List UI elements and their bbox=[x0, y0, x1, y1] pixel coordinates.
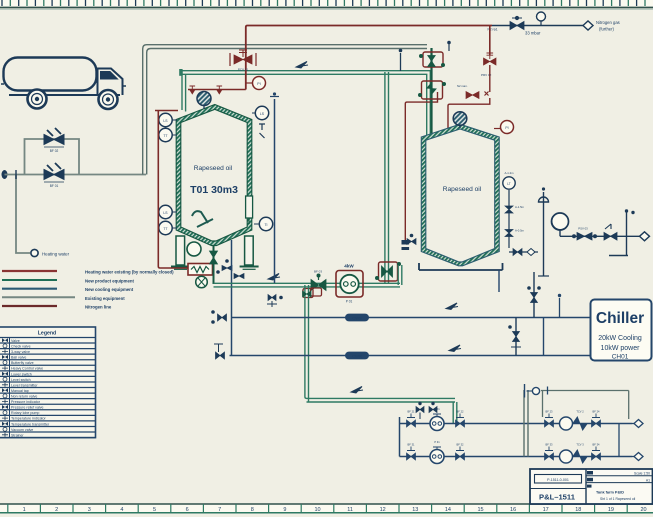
circulation pump small bbox=[196, 276, 208, 288]
svg-text:15: 15 bbox=[477, 507, 483, 513]
svg-text:PCV 01: PCV 01 bbox=[238, 68, 249, 72]
valve PRV02 bbox=[484, 53, 497, 65]
svg-text:Check valve: Check valve bbox=[11, 344, 31, 348]
svg-text:Heavy Control valve: Heavy Control valve bbox=[11, 367, 43, 371]
spray ball instrument bbox=[203, 106, 205, 110]
drain cluster below tank bbox=[217, 260, 244, 279]
valve drop from tank2 cooling bbox=[528, 272, 541, 318]
instrument LS lower left bbox=[172, 211, 177, 213]
svg-text:New cooling equipment: New cooling equipment bbox=[85, 287, 134, 292]
fitting at heating drop bbox=[402, 240, 410, 250]
svg-text:13: 13 bbox=[412, 507, 418, 513]
wire: heating water line to exchanger bbox=[405, 92, 437, 240]
svg-text:Nitrogen line: Nitrogen line bbox=[85, 305, 112, 310]
instrument TI right bbox=[254, 223, 259, 225]
svg-text:Temperature indicator: Temperature indicator bbox=[11, 417, 47, 421]
tanker truck bbox=[1, 58, 126, 96]
svg-text:BF 33: BF 33 bbox=[546, 443, 553, 447]
svg-text:18: 18 bbox=[575, 507, 581, 513]
wire: chilled water return bbox=[230, 355, 591, 357]
side nozzles right tank bbox=[505, 190, 525, 248]
node at left edge bbox=[2, 170, 8, 179]
svg-text:Pressure relief valve: Pressure relief valve bbox=[11, 406, 44, 410]
svg-text:2: 2 bbox=[55, 507, 58, 513]
heat exchanger train row 1 bbox=[400, 407, 633, 431]
wire: tank outlet bbox=[213, 246, 215, 285]
svg-text:TCV 3: TCV 3 bbox=[576, 443, 584, 447]
svg-text:10: 10 bbox=[314, 507, 320, 513]
svg-text:7: 7 bbox=[218, 507, 221, 513]
valve BF02 (bypass top) bbox=[44, 128, 64, 147]
svg-text:A-1.2m: A-1.2m bbox=[504, 171, 514, 175]
flow arrow supply bbox=[446, 303, 458, 310]
legend line nitrogen bbox=[2, 305, 57, 307]
svg-text:CWR: CWR bbox=[352, 353, 362, 358]
wire: header tie bbox=[543, 318, 545, 356]
gauge 33 mbar bbox=[540, 21, 542, 26]
svg-text:LS: LS bbox=[163, 119, 168, 123]
legend line heating water bbox=[2, 270, 57, 272]
svg-text:Legend: Legend bbox=[38, 331, 56, 337]
legend table bbox=[0, 327, 96, 438]
wire: vent line right bbox=[560, 235, 640, 237]
svg-text:BF 02: BF 02 bbox=[50, 149, 59, 153]
heat exchanger train row 2 bbox=[400, 440, 633, 464]
svg-text:BF 03: BF 03 bbox=[314, 270, 322, 274]
valve tank outlet bbox=[210, 251, 218, 264]
svg-text:11: 11 bbox=[347, 507, 353, 513]
wire: train left header bbox=[399, 417, 401, 457]
svg-text:20: 20 bbox=[640, 507, 646, 513]
svg-text:BF 21: BF 21 bbox=[408, 410, 415, 414]
svg-text:CH01: CH01 bbox=[612, 354, 629, 361]
svg-text:Sht 1 of 1 Rapeseed oil: Sht 1 of 1 Rapeseed oil bbox=[600, 497, 635, 501]
tank T01 wall bbox=[176, 105, 252, 246]
tank legs bbox=[176, 236, 253, 265]
vent stub mid bbox=[400, 53, 402, 71]
legend line new cooling bbox=[2, 288, 57, 290]
instrument TT upper left bbox=[172, 134, 177, 136]
svg-text:PI: PI bbox=[257, 82, 260, 86]
svg-text:Rapeseed oil: Rapeseed oil bbox=[443, 186, 482, 193]
svg-text:14: 14 bbox=[445, 507, 451, 513]
balancing valve between headers bbox=[509, 318, 521, 356]
strainer valve bbox=[604, 224, 617, 240]
svg-text:BF 32: BF 32 bbox=[457, 443, 464, 447]
svg-text:CWS: CWS bbox=[352, 315, 362, 320]
stub to chiller supply bbox=[559, 298, 561, 318]
svg-text:4kW: 4kW bbox=[344, 264, 354, 269]
wire: nitrogen drop right tank bbox=[489, 26, 491, 56]
svg-text:TI: TI bbox=[264, 223, 267, 227]
valve PCV (nitrogen, left tank) bbox=[230, 50, 256, 66]
wire: bypass loop bbox=[25, 139, 80, 175]
flow arrow transfer bbox=[351, 387, 363, 394]
wire: glycol double drop bbox=[524, 390, 528, 457]
svg-text:Strainer: Strainer bbox=[11, 433, 24, 437]
svg-text:Rotary lobe pump: Rotary lobe pump bbox=[11, 411, 39, 415]
valves above left header bbox=[416, 402, 437, 419]
tank 2 base bbox=[419, 263, 503, 270]
svg-text:N2 man.: N2 man. bbox=[457, 84, 468, 88]
nitrogen gas source connector bbox=[583, 21, 593, 30]
valve on level line bbox=[212, 311, 227, 324]
truck wheel rear bbox=[28, 90, 47, 109]
svg-text:Level switch: Level switch bbox=[11, 378, 31, 382]
svg-text:A-0.5m: A-0.5m bbox=[515, 229, 525, 233]
vent standpipe bbox=[609, 213, 628, 256]
wire: chilled water supply bbox=[232, 317, 591, 319]
wire: nitrogen header bbox=[246, 26, 492, 90]
wire: product line drop to pump bbox=[385, 72, 389, 284]
svg-text:Temperature transmitter: Temperature transmitter bbox=[11, 422, 50, 426]
truck wheel front bbox=[99, 90, 118, 109]
vent fitting right shoulder bbox=[259, 124, 265, 138]
chiller CH01 bbox=[591, 300, 652, 361]
wire: truck unloading main line bbox=[5, 174, 147, 176]
glycol pump small bbox=[532, 387, 539, 394]
instrument LS top right bbox=[252, 112, 256, 114]
flow arrow bbox=[268, 274, 280, 281]
svg-text:9: 9 bbox=[283, 507, 286, 513]
svg-text:LT: LT bbox=[507, 182, 511, 186]
wire: glycol top run bbox=[541, 390, 629, 392]
svg-text:P-1511-0-001: P-1511-0-001 bbox=[547, 478, 569, 482]
svg-text:T01 30m3: T01 30m3 bbox=[190, 184, 238, 196]
heating water connection point bbox=[31, 249, 38, 256]
svg-text:Valve: Valve bbox=[11, 339, 20, 343]
svg-text:BF 22: BF 22 bbox=[457, 410, 464, 414]
svg-text:BF 34: BF 34 bbox=[593, 443, 600, 447]
svg-text:P&L–1511: P&L–1511 bbox=[539, 493, 576, 502]
valves nitrogen manifold right tank bbox=[457, 84, 489, 99]
wire: cross connection bbox=[231, 318, 233, 356]
gauge PI01 bbox=[246, 82, 252, 84]
svg-text:(further): (further) bbox=[599, 27, 614, 32]
wire: product transfer line bbox=[305, 285, 455, 402]
svg-text:Existing equipment: Existing equipment bbox=[85, 296, 125, 301]
svg-text:Scale 1:50: Scale 1:50 bbox=[634, 472, 650, 476]
wire: train mid tie bbox=[618, 424, 620, 457]
tank 2 wall bbox=[421, 124, 499, 266]
svg-text:LS: LS bbox=[260, 112, 265, 116]
svg-text:Vacuum valve: Vacuum valve bbox=[11, 428, 33, 432]
svg-text:BF 24: BF 24 bbox=[593, 410, 600, 414]
wire: heating water supply left tank bbox=[155, 110, 178, 112]
heater box bbox=[188, 264, 213, 276]
svg-text:PI: PI bbox=[505, 126, 508, 130]
valve on return end bbox=[214, 344, 225, 359]
feed pipe into tank top bbox=[182, 71, 186, 112]
gauge PI right tank bbox=[494, 128, 501, 130]
svg-text:8: 8 bbox=[251, 507, 254, 513]
svg-text:4: 4 bbox=[120, 507, 123, 513]
legend line new product bbox=[2, 279, 57, 281]
vent connector diamond bbox=[640, 232, 650, 241]
flow arrow return bbox=[449, 345, 461, 352]
title block bbox=[530, 469, 653, 504]
svg-text:Ball valve: Ball valve bbox=[11, 356, 26, 360]
valves N2 inlet to left tank bbox=[188, 89, 246, 91]
legend line existing bbox=[2, 296, 75, 298]
svg-text:PSV 03: PSV 03 bbox=[578, 227, 588, 231]
svg-text:TCV 2: TCV 2 bbox=[576, 410, 584, 414]
bottom outlet valve tank2 bbox=[509, 249, 538, 256]
wire: level line bbox=[231, 240, 233, 318]
small fittings above supply bbox=[267, 295, 282, 308]
instrument LS upper left bbox=[172, 119, 177, 121]
svg-text:BF 31: BF 31 bbox=[408, 443, 415, 447]
svg-text:Heating water: Heating water bbox=[42, 252, 70, 257]
svg-text:16: 16 bbox=[510, 507, 516, 513]
level dome instrument bbox=[538, 192, 549, 276]
svg-text:Manual tap: Manual tap bbox=[11, 389, 29, 393]
svg-text:New product equipment: New product equipment bbox=[85, 279, 135, 284]
instrument LT right tank bbox=[503, 177, 515, 189]
svg-text:Heating water existing (by nor: Heating water existing (by normally clos… bbox=[85, 270, 174, 275]
svg-text:Rapeseed oil: Rapeseed oil bbox=[194, 165, 233, 172]
svg-text:Lower switch: Lower switch bbox=[11, 372, 32, 376]
valve nitrogen shutoff bbox=[510, 16, 524, 29]
svg-text:19: 19 bbox=[608, 507, 614, 513]
valve BF01 (main line) bbox=[44, 163, 64, 182]
wire: product line upper run bbox=[181, 71, 430, 137]
svg-text:BF 23: BF 23 bbox=[546, 410, 553, 414]
wire: product into right tank bbox=[430, 48, 432, 137]
valve on transfer drop bbox=[311, 288, 322, 296]
svg-text:Nitrogen gas: Nitrogen gas bbox=[596, 20, 620, 25]
label pill CWR bbox=[345, 352, 369, 360]
svg-text:12: 12 bbox=[380, 507, 386, 513]
svg-text:Chiller: Chiller bbox=[596, 310, 644, 327]
valve block pump discharge bbox=[379, 262, 398, 281]
spray ball instrument tank2 bbox=[459, 125, 461, 129]
wire: level transmitter line bbox=[274, 99, 276, 283]
wire: tank2 bottom drop bbox=[498, 270, 500, 292]
svg-text:TT: TT bbox=[163, 227, 167, 231]
valve PSV03 bbox=[573, 227, 597, 241]
flow arrow top run bbox=[296, 62, 308, 69]
svg-text:17: 17 bbox=[543, 507, 549, 513]
pump CH feed bbox=[552, 213, 569, 230]
svg-text:Tank farm P&ID: Tank farm P&ID bbox=[596, 491, 624, 495]
svg-text:A-1.5m: A-1.5m bbox=[515, 205, 525, 209]
svg-text:A1: A1 bbox=[646, 478, 650, 482]
wire: nitrogen into right tank bbox=[448, 98, 490, 133]
wire: heating water drop bbox=[16, 175, 30, 254]
svg-text:5: 5 bbox=[153, 507, 156, 513]
instrument TT lower left bbox=[172, 227, 177, 229]
wire: existing main line riser and top run bbox=[143, 45, 427, 175]
svg-text:LS: LS bbox=[163, 211, 168, 215]
svg-text:Level transmitter: Level transmitter bbox=[11, 383, 38, 387]
svg-text:Pressure indicator: Pressure indicator bbox=[11, 400, 41, 404]
svg-text:Non return valve: Non return valve bbox=[11, 395, 37, 399]
svg-text:P 01: P 01 bbox=[346, 300, 353, 304]
svg-text:BF 01: BF 01 bbox=[50, 184, 59, 188]
wire: discharge elbow bbox=[398, 265, 402, 285]
svg-text:6: 6 bbox=[186, 507, 189, 513]
valve block lower (right tank feed) bbox=[422, 81, 443, 99]
svg-text:TT: TT bbox=[163, 134, 167, 138]
agitator bbox=[192, 211, 213, 227]
pump P01 4kW bbox=[336, 271, 363, 298]
svg-text:20kW Cooling: 20kW Cooling bbox=[598, 335, 642, 342]
svg-text:1: 1 bbox=[23, 507, 26, 513]
wire: product suction run bbox=[214, 283, 401, 287]
valve BF03 bbox=[311, 274, 326, 291]
svg-text:3: 3 bbox=[88, 507, 91, 513]
svg-text:3-way valve: 3-way valve bbox=[11, 350, 30, 354]
bottom outlet pump bbox=[187, 242, 201, 256]
svg-text:P 31: P 31 bbox=[434, 440, 440, 444]
label pill CWS bbox=[345, 314, 369, 322]
standpipe level gauge bbox=[246, 196, 253, 218]
valve block upper (right tank feed) bbox=[423, 52, 443, 67]
svg-text:Butterfly valve: Butterfly valve bbox=[11, 361, 34, 365]
svg-text:10kW power: 10kW power bbox=[601, 345, 641, 352]
vent stub bbox=[448, 44, 450, 51]
svg-text:33 mbar: 33 mbar bbox=[525, 31, 541, 36]
nozzle left side tank2 bbox=[407, 234, 416, 244]
